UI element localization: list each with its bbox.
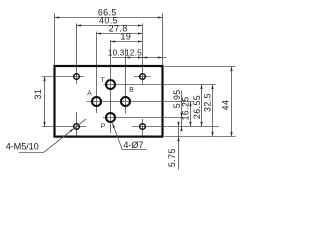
svg-text:P: P xyxy=(101,123,106,130)
svg-text:19: 19 xyxy=(121,31,132,41)
svg-text:16.25: 16.25 xyxy=(181,96,191,120)
svg-text:12.5: 12.5 xyxy=(125,48,142,57)
svg-text:31: 31 xyxy=(33,89,43,100)
svg-text:4-Ø7: 4-Ø7 xyxy=(123,140,143,150)
svg-text:10.3: 10.3 xyxy=(108,48,125,57)
svg-text:A: A xyxy=(87,90,92,97)
svg-text:B: B xyxy=(129,86,134,93)
svg-text:32.5: 32.5 xyxy=(203,93,213,112)
svg-text:44: 44 xyxy=(221,100,231,111)
svg-text:T: T xyxy=(101,77,105,84)
svg-text:26.55: 26.55 xyxy=(192,95,202,119)
svg-text:5.75: 5.75 xyxy=(167,148,177,167)
svg-text:4-M5/10: 4-M5/10 xyxy=(6,142,39,152)
